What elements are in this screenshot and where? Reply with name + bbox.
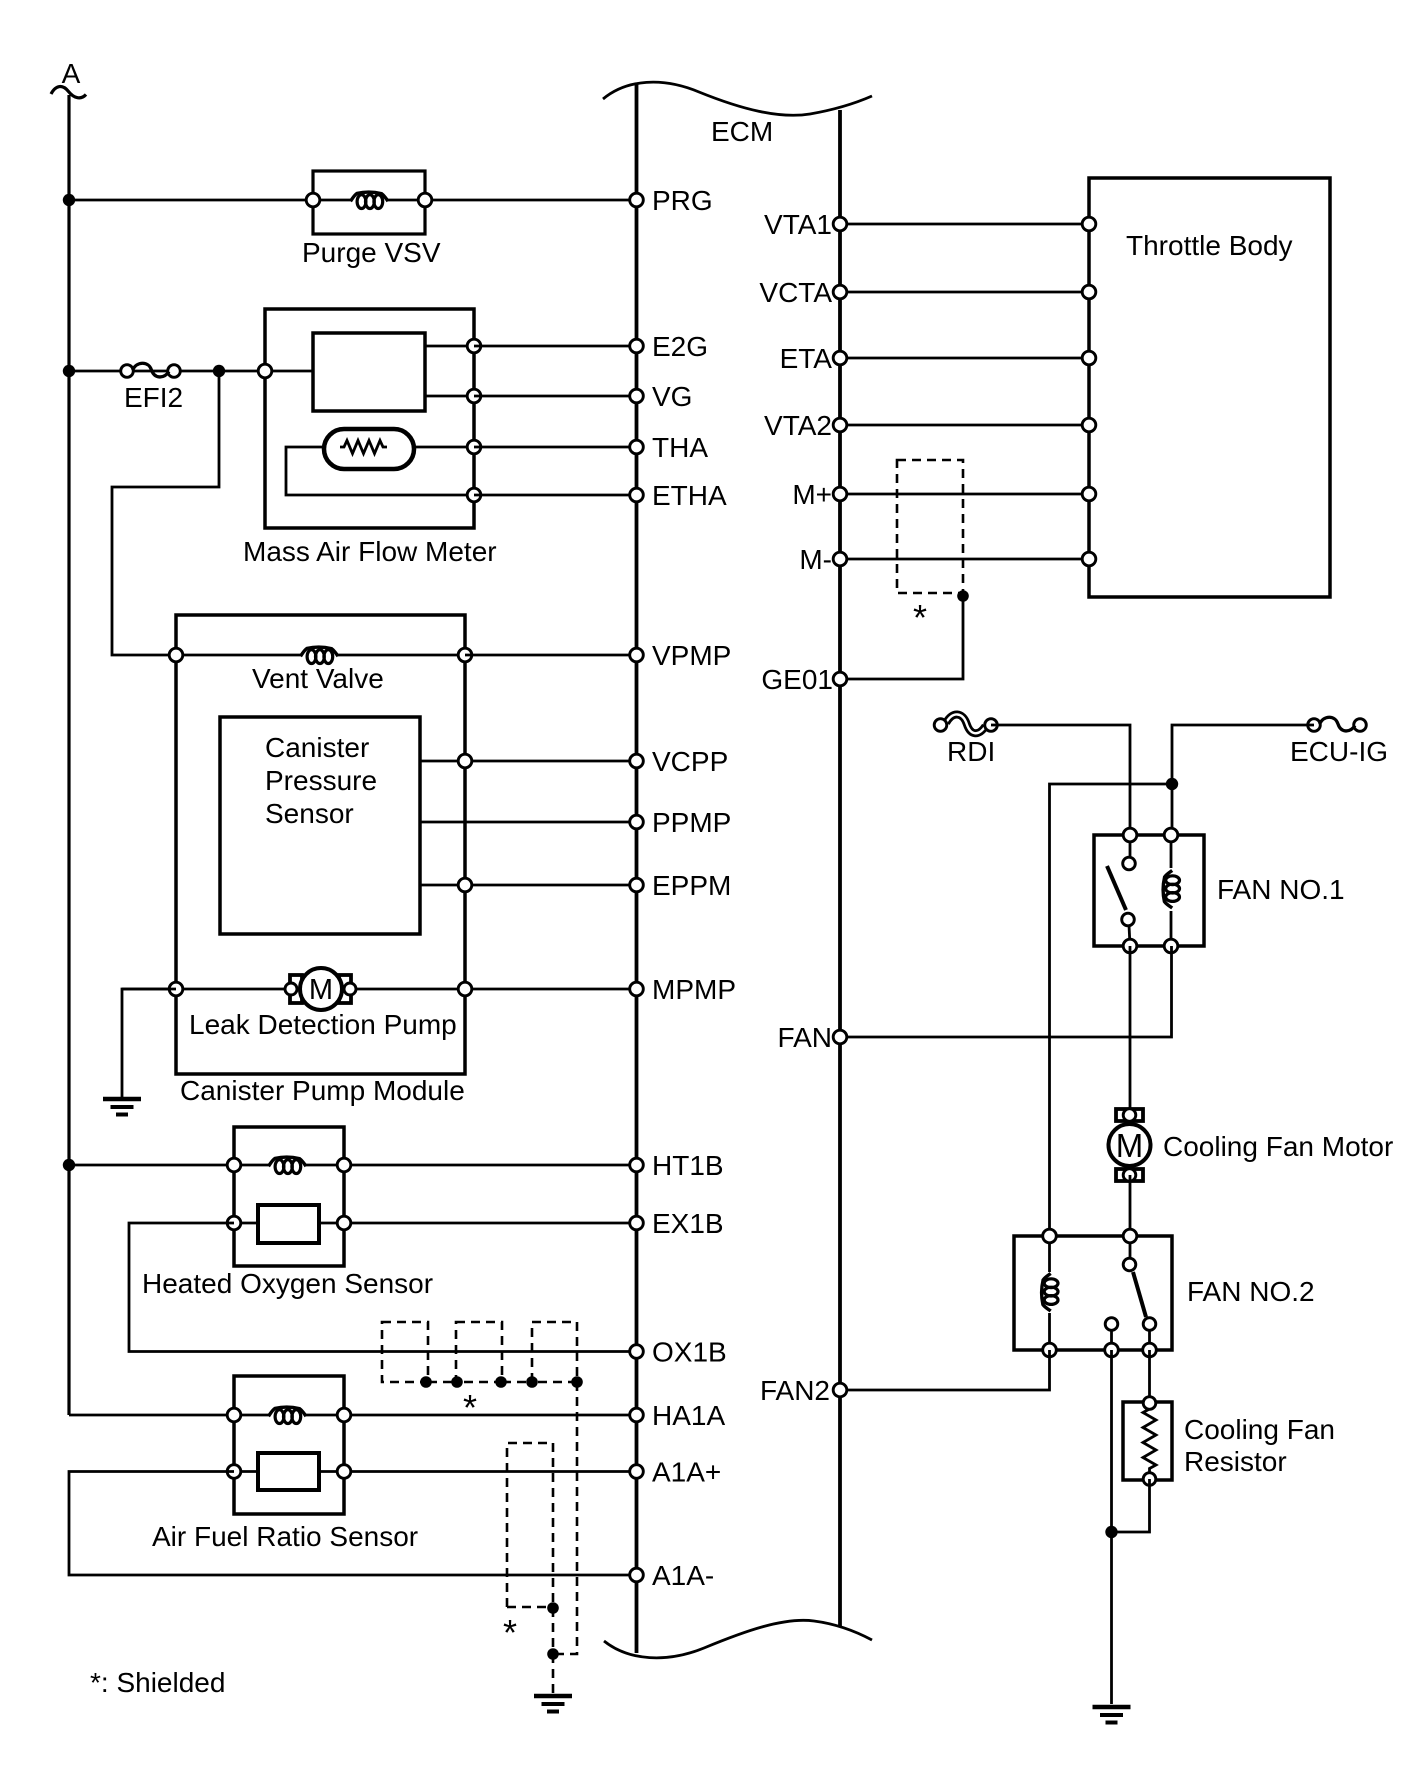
pin VG — [630, 381, 693, 412]
module terminal VCPP — [458, 754, 472, 768]
wire EX1B left stub — [234, 1222, 258, 1225]
FAN NO.1 coil wire — [1170, 835, 1173, 868]
pin A1A- — [630, 1560, 715, 1591]
shield dot throttle motor — [957, 590, 969, 602]
wire EX1B to ECM — [319, 1222, 637, 1225]
wire THA inside — [414, 446, 474, 449]
wire MAF supply — [265, 370, 313, 373]
fuse ECU-IG — [1308, 719, 1321, 732]
pin ETA — [780, 343, 847, 374]
ground shield A1A — [534, 1694, 572, 1699]
wire PPMP — [420, 821, 637, 824]
junction on bus at PRG wire — [63, 194, 75, 206]
junction resistor ground — [1105, 1526, 1117, 1538]
svg-text:EFI2: EFI2 — [124, 382, 183, 413]
wire FAN from ECM — [840, 946, 1172, 1037]
HOS sensing element — [258, 1205, 319, 1243]
cooling fan motor — [1109, 1109, 1151, 1182]
wire EPPM — [420, 884, 637, 887]
MAF terminal THA — [467, 440, 481, 454]
svg-text:FAN NO.2: FAN NO.2 — [1187, 1276, 1315, 1307]
AFR terminal A1A+ right — [337, 1465, 351, 1479]
wire ECU-IG down — [1172, 725, 1314, 835]
svg-text:Leak Detection Pump: Leak Detection Pump — [189, 1009, 457, 1040]
purge VSV solenoid — [306, 171, 432, 234]
shield drain to ground — [552, 1654, 555, 1694]
wire MPMP through pump — [122, 988, 637, 991]
svg-text:PRG: PRG — [652, 185, 713, 216]
svg-text:VPMP: VPMP — [652, 640, 731, 671]
shield dot A1A lower — [547, 1648, 559, 1660]
wire MAF E2G inside — [425, 345, 474, 348]
svg-text:VG: VG — [652, 381, 692, 412]
svg-text:M+: M+ — [792, 479, 832, 510]
wire VCPP — [420, 760, 637, 763]
pin VCTA — [759, 277, 846, 308]
MAF terminal supply — [258, 364, 272, 378]
throttle body terminal ETA — [1082, 351, 1096, 365]
wire OX1B route — [129, 1223, 637, 1352]
pin MPMP — [630, 974, 736, 1005]
junction EFI2 branch — [213, 365, 225, 377]
svg-text:*: * — [463, 1387, 477, 1428]
svg-text:MPMP: MPMP — [652, 974, 736, 1005]
pin FAN — [778, 1022, 847, 1053]
svg-text:FAN2: FAN2 — [760, 1375, 830, 1406]
wire RDI to fan relay — [991, 725, 1130, 835]
ground canister pump — [103, 1097, 141, 1102]
svg-text:Sensor: Sensor — [265, 798, 354, 829]
svg-text:Air Fuel Ratio Sensor: Air Fuel Ratio Sensor — [152, 1521, 418, 1552]
wire A1A+ left stub — [234, 1470, 258, 1473]
wire M- — [840, 558, 1089, 561]
svg-text:HT1B: HT1B — [652, 1150, 724, 1181]
module terminal EPPM — [458, 878, 472, 892]
wire FAN2 from ECM — [840, 1350, 1050, 1390]
wire A1A+ to ECM — [319, 1470, 637, 1473]
wire bus from A — [67, 95, 70, 1415]
pin HT1B — [630, 1150, 724, 1181]
heated oxygen sensor box — [234, 1127, 344, 1266]
svg-text:HA1A: HA1A — [652, 1400, 725, 1431]
relay FAN NO.1 box — [1094, 835, 1204, 946]
MAF sensor element — [313, 333, 425, 411]
junction on bus at HT1B — [63, 1159, 75, 1171]
svg-text:Cooling Fan Motor: Cooling Fan Motor — [1163, 1131, 1393, 1162]
module terminal MPMP right — [458, 982, 472, 996]
cooling fan resistor — [1123, 1397, 1172, 1486]
wire VPMP to ECM — [465, 654, 637, 657]
svg-text:Resistor: Resistor — [1184, 1446, 1287, 1477]
svg-text:Cooling Fan: Cooling Fan — [1184, 1414, 1335, 1445]
wire motor to fan no.2 — [1129, 1175, 1132, 1236]
svg-text:*: * — [913, 597, 927, 638]
pin PRG — [630, 185, 713, 216]
junction ECU-IG branch — [1166, 778, 1178, 790]
fusible link RDI — [946, 714, 986, 733]
svg-text:Vent Valve: Vent Valve — [252, 663, 384, 694]
pin VPMP — [630, 640, 732, 671]
ECM right boundary line — [838, 110, 842, 1627]
wire PRG from bus to ECM — [69, 199, 637, 202]
pin PPMP — [630, 807, 732, 838]
pin VCPP — [630, 746, 729, 777]
HOS terminal HT1B right — [337, 1158, 351, 1172]
svg-text:Canister Pump Module: Canister Pump Module — [180, 1075, 465, 1106]
svg-text:A1A-: A1A- — [652, 1560, 714, 1591]
module terminal MPMP left — [169, 982, 183, 996]
pin THA — [630, 432, 709, 463]
canister pressure sensor box — [220, 717, 420, 934]
fuse EFI2 — [121, 363, 181, 377]
svg-text:THA: THA — [652, 432, 708, 463]
svg-text:ECU-IG: ECU-IG — [1290, 736, 1388, 767]
wire HT1B — [69, 1164, 637, 1167]
svg-text:A: A — [62, 58, 81, 89]
svg-text:M: M — [1116, 1127, 1144, 1164]
label Canister Pressure Sensor — [265, 732, 377, 829]
MAF terminal E2G — [467, 339, 481, 353]
vent valve coil — [301, 647, 339, 665]
pin A1A+ — [630, 1457, 722, 1488]
wire relay to motor — [1129, 946, 1132, 1115]
wire THA to ECM — [474, 446, 637, 449]
canister pump module box — [176, 615, 465, 1074]
pin VTA1 — [764, 209, 847, 240]
ground cooling fan — [1093, 1705, 1131, 1710]
svg-text:ETHA: ETHA — [652, 480, 727, 511]
ECM bottom break wave — [604, 1620, 872, 1658]
pin OX1B — [630, 1337, 727, 1368]
svg-text:Mass Air Flow Meter: Mass Air Flow Meter — [243, 536, 497, 567]
throttle body terminal VTA2 — [1082, 418, 1096, 432]
node A (connector label) — [51, 58, 86, 98]
svg-text:VCTA: VCTA — [759, 277, 832, 308]
FAN NO.1 switch — [1107, 835, 1135, 946]
AFR heater coil — [269, 1407, 307, 1425]
HOS terminal EX1B left — [227, 1216, 241, 1230]
wire E2G to ECM — [474, 345, 637, 348]
wire VG to ECM — [474, 395, 637, 398]
shield box throttle motor — [897, 460, 963, 593]
svg-text:RDI: RDI — [947, 736, 995, 767]
wire VTA2 — [840, 424, 1089, 427]
wire branch EFI2 to vent valve — [112, 371, 219, 655]
svg-text:Canister: Canister — [265, 732, 369, 763]
wire ETHA loop inside — [286, 447, 474, 495]
wire VCTA — [840, 291, 1089, 294]
svg-text:Pressure: Pressure — [265, 765, 377, 796]
wire VTA1 — [840, 223, 1089, 226]
HOS terminal HT1B left — [227, 1158, 241, 1172]
shield box A1A — [507, 1443, 553, 1607]
wire fan no.2 to ground — [1110, 1350, 1113, 1704]
svg-text:E2G: E2G — [652, 331, 708, 362]
svg-text:FAN NO.1: FAN NO.1 — [1217, 874, 1345, 905]
label Cooling Fan Resistor — [1184, 1414, 1335, 1477]
wire ETA — [840, 357, 1089, 360]
svg-text:VTA2: VTA2 — [764, 410, 832, 441]
pin M- — [799, 544, 846, 575]
wire A1A- route — [69, 1472, 637, 1576]
pin EX1B — [630, 1208, 724, 1239]
svg-text:Heated Oxygen Sensor: Heated Oxygen Sensor — [142, 1268, 433, 1299]
wire bus to fuse EFI2 — [69, 370, 267, 373]
shield box OX1B 2 — [456, 1322, 502, 1382]
wire resistor to junction — [1112, 1479, 1150, 1532]
pin VTA2 — [764, 410, 847, 441]
shield box OX1B 1 — [382, 1322, 428, 1382]
pin GE01 — [761, 664, 846, 695]
svg-text:VCPP: VCPP — [652, 746, 728, 777]
pin HA1A — [630, 1400, 726, 1431]
shield drain OX1B — [553, 1382, 577, 1654]
wire MAF VG inside — [425, 395, 474, 398]
shield box OX1B 3 — [532, 1322, 577, 1382]
mass air flow meter body — [265, 309, 474, 528]
wire relay to resistor — [1148, 1350, 1151, 1403]
svg-text:EX1B: EX1B — [652, 1208, 724, 1239]
svg-text:VTA1: VTA1 — [764, 209, 832, 240]
MAF terminal VG — [467, 389, 481, 403]
leak detection pump motor — [285, 968, 356, 1010]
AFR terminal A1A+ left — [227, 1465, 241, 1479]
svg-text:M: M — [309, 974, 333, 1006]
air fuel ratio sensor box — [234, 1376, 344, 1514]
vent valve coil wire — [176, 654, 465, 657]
ECM top break wave — [603, 82, 872, 115]
FAN NO.2 coil — [1042, 1274, 1060, 1312]
AFR sensing element — [258, 1453, 319, 1490]
svg-text:ETA: ETA — [780, 343, 833, 374]
wire HA1A — [69, 1414, 637, 1417]
AFR terminal HA1A left — [227, 1408, 241, 1422]
shield dot A1A upper — [547, 1602, 559, 1614]
pin M+ — [792, 479, 846, 510]
ECM left boundary line — [635, 84, 639, 1653]
wire branch to fan no.2 coil — [1050, 784, 1173, 1236]
junction on bus at EFI2 wire — [63, 365, 75, 377]
FAN NO.2 switch — [1105, 1236, 1156, 1350]
FAN NO.2 coil wire — [1048, 1236, 1051, 1272]
shield link wire — [428, 1381, 456, 1384]
AFR terminal HA1A right — [337, 1408, 351, 1422]
svg-text:A1A+: A1A+ — [652, 1457, 721, 1488]
relay FAN NO.2 terminals — [1043, 1229, 1057, 1243]
throttle body terminal M- — [1082, 552, 1096, 566]
shield drain A1A — [552, 1608, 555, 1654]
HOS heater coil — [269, 1157, 307, 1175]
pin E2G — [630, 331, 708, 362]
svg-text:FAN: FAN — [778, 1022, 832, 1053]
throttle body terminal VCTA — [1082, 285, 1096, 299]
wire M+ — [840, 493, 1089, 496]
throttle body terminal M+ — [1082, 487, 1096, 501]
wire shield drain to GE01 — [840, 596, 963, 679]
svg-text:OX1B: OX1B — [652, 1337, 727, 1368]
MAF terminal ETHA — [467, 488, 481, 502]
svg-text:GE01: GE01 — [761, 664, 833, 695]
svg-text:ECM: ECM — [711, 116, 773, 147]
FAN NO.1 coil — [1163, 871, 1181, 909]
wire ETHA to ECM — [474, 494, 637, 497]
svg-text:PPMP: PPMP — [652, 807, 731, 838]
svg-text:Throttle Body: Throttle Body — [1126, 230, 1293, 261]
svg-text:*: Shielded: *: Shielded — [90, 1667, 225, 1698]
vent valve terminal right — [458, 648, 472, 662]
svg-text:M-: M- — [799, 544, 832, 575]
svg-text:*: * — [503, 1612, 517, 1653]
relay FAN NO.2 box — [1014, 1236, 1172, 1350]
throttle body terminal VTA1 — [1082, 217, 1096, 231]
svg-text:EPPM: EPPM — [652, 870, 731, 901]
shield junction dots OX1B — [420, 1376, 432, 1388]
pin ETHA — [630, 480, 727, 511]
wire pump to ground — [122, 989, 176, 1097]
throttle body box — [1089, 178, 1330, 597]
vent valve terminal left — [169, 648, 183, 662]
MAF hot wire resistor — [324, 429, 414, 469]
svg-text:Purge VSV: Purge VSV — [302, 237, 441, 268]
pin FAN2 — [760, 1375, 847, 1406]
HOS terminal EX1B right — [337, 1216, 351, 1230]
relay FAN NO.1 terminals — [1123, 828, 1137, 842]
pin EPPM — [630, 870, 732, 901]
